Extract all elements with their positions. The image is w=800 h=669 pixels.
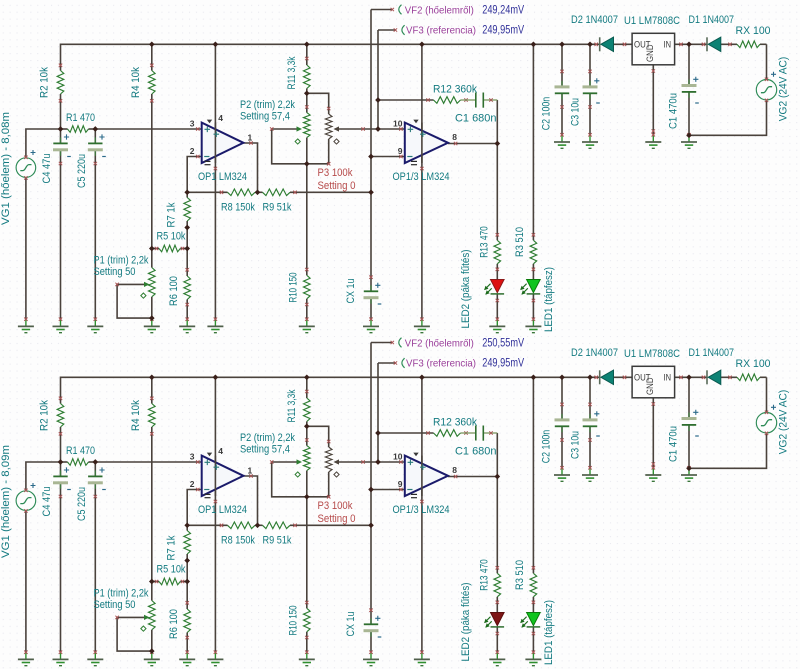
capacitor CX (bottom) [370, 618, 372, 624]
wire R11 to P3 top (top) [307, 93, 329, 114]
LED LED2 (top) [491, 280, 505, 293]
wire VG1 output to R1 node (top) [26, 129, 61, 157]
potentiometer P3 (bottom) [325, 447, 332, 472]
junction VF3-R12 (top) [375, 97, 381, 103]
resistor R9 (bottom) [263, 522, 291, 529]
junction out-C1-R13 (top) [494, 141, 500, 147]
svg-text:8: 8 [452, 465, 457, 475]
wire R1 leads (top) [61, 128, 68, 130]
junction IN-C1-D1 (top) [686, 41, 692, 47]
ground at x=60.5 (bottom) [60, 653, 62, 660]
wire R11 leads / P2 column (bottom) [306, 377, 308, 398]
resistor R8 (top) [228, 189, 256, 196]
op-amp OP1 (top) [202, 123, 244, 163]
capacitor C5 (bottom) [94, 470, 96, 476]
junction C1-VG2 return (bottom) [686, 465, 692, 471]
svg-text:R10 150: R10 150 [288, 273, 300, 303]
resistor R6 (bottom) [184, 609, 191, 633]
junction R7 bottom (bottom) [184, 558, 190, 564]
svg-text:C5 220u: C5 220u [76, 487, 88, 521]
wire R1 node to op-amp pin 3 (top) [95, 128, 201, 130]
wire U1 GND pin (top) [652, 65, 654, 135]
node VF2 line (top) [370, 10, 372, 292]
svg-text:LED2 (páka fűtés): LED2 (páka fűtés) [460, 583, 472, 662]
svg-text:249,24mV: 249,24mV [482, 4, 524, 16]
junction P1 bottom (bottom) [149, 648, 155, 654]
capacitor C1 470u (bottom) [688, 413, 690, 419]
resistor R3 (top) [530, 240, 537, 263]
wire OP1/3 output line (top) [448, 143, 497, 145]
svg-text:RX 100: RX 100 [736, 358, 771, 370]
ground power section x=653.3 (top) [652, 135, 654, 142]
LED LED1 (top) [527, 280, 541, 293]
svg-text:3: 3 [190, 452, 195, 462]
resistor R5 (bottom) [159, 578, 180, 585]
resistor R13 (bottom) [494, 573, 501, 597]
resistor R10 (bottom) [304, 608, 311, 632]
svg-text:C1 680n: C1 680n [455, 113, 497, 125]
wire P2 bottom to P3 bottom (top) [307, 163, 329, 165]
resistor R13 (top) [494, 240, 501, 263]
diode D2 (top) [599, 37, 601, 51]
svg-text:OP1/3 LM324: OP1/3 LM324 [393, 171, 450, 183]
resistor R11 (top) [304, 65, 311, 89]
ground power section x=562 (bottom) [561, 468, 563, 475]
junction R1-C5-pin3 (top) [92, 126, 98, 132]
junction bus-OP1/3 power (top) [419, 41, 425, 47]
wire VF3 probe stub (top) [378, 29, 395, 31]
resistor R2 (bottom) [57, 404, 64, 428]
node VF2 line (bottom) [370, 343, 372, 625]
wire U1 IN to D1 (bottom) [675, 376, 707, 378]
ground at x=306.8 (top) [306, 320, 308, 327]
op-amp OP1/3 (top) [405, 123, 448, 163]
junction R4-R5-P1 (top) [149, 246, 155, 252]
wire P3 wiper to op-amp pin 10 (bottom) [338, 461, 405, 463]
svg-text:Setting 57,4: Setting 57,4 [240, 443, 290, 455]
svg-text:VF2 (hőelemről): VF2 (hőelemről) [405, 337, 474, 349]
ground at x=497.3 (bottom) [496, 653, 498, 660]
potentiometer P3 (top) [325, 114, 332, 139]
wire P3 bottom lead (bottom) [328, 472, 330, 497]
junction bus-OP1 power (top) [213, 41, 219, 47]
junction P1 bottom (top) [149, 315, 155, 321]
svg-text:R12 360k: R12 360k [433, 84, 477, 96]
junction bus-R11 (top) [304, 41, 310, 47]
junction bus-R4 (bottom) [149, 374, 155, 380]
svg-text:R7 1k: R7 1k [166, 535, 178, 560]
wire R7 to R6 column (top) [186, 221, 188, 276]
wire R7 to R6 column (bottom) [186, 554, 188, 609]
wire U1 IN to D1 (top) [675, 43, 707, 45]
diode D1 (bottom) [706, 370, 708, 384]
ground power section x=562 (top) [561, 135, 563, 142]
voltage source VG2 (top) [756, 80, 776, 100]
svg-text:P1 (trim) 2,2k: P1 (trim) 2,2k [94, 588, 149, 600]
capacitor C1 470u (top) [688, 80, 690, 86]
resistor R10 (top) [304, 275, 311, 299]
svg-text:OP1 LM324: OP1 LM324 [198, 171, 247, 183]
svg-text:249,95mV: 249,95mV [482, 24, 524, 36]
wire C1 470u leads (bottom) [688, 377, 690, 418]
junction bus-R11 (bottom) [304, 374, 310, 380]
svg-text:8: 8 [452, 132, 457, 142]
svg-text:C3 10u: C3 10u [569, 431, 581, 459]
capacitor C2 (top) [561, 81, 563, 87]
junction bus-OP1/3 power (bottom) [419, 374, 425, 380]
svg-text:R5 10k: R5 10k [157, 564, 186, 576]
junction bus-C3 (top) [587, 41, 593, 47]
svg-text:R2 10k: R2 10k [39, 67, 51, 98]
junction bus-C2 (top) [559, 41, 565, 47]
junction VF2-pin9 (top) [368, 154, 374, 160]
svg-text:R8 150k: R8 150k [221, 202, 255, 214]
svg-text:1: 1 [248, 133, 253, 143]
wire C5 leads (bottom) [94, 462, 96, 476]
wire R10 column (bottom) [306, 497, 308, 609]
svg-text:C1 680n: C1 680n [455, 446, 497, 458]
ground power section x=590 (bottom) [589, 468, 591, 475]
wire D1 to RX to VG2 (bottom) [721, 376, 737, 378]
wire P2 bottom to P3 bottom (bottom) [307, 496, 329, 498]
resistor R7 (bottom) [184, 531, 191, 555]
svg-text:C4 47u: C4 47u [41, 487, 53, 517]
svg-text:10: 10 [393, 119, 403, 129]
junction R11-P2-P3 (top) [304, 90, 310, 96]
op-amp OP1 (bottom) [202, 456, 244, 496]
capacitor C5 (top) [94, 137, 96, 143]
svg-text:D2 1N4007: D2 1N4007 [571, 347, 618, 359]
junction bus-R4 (top) [149, 41, 155, 47]
ground power section x=689 (top) [688, 135, 690, 142]
svg-text:C4 47u: C4 47u [41, 154, 53, 184]
junction out-C1-R13 (bottom) [494, 474, 500, 480]
svg-text:VG2 (24V AC): VG2 (24V AC) [778, 390, 790, 455]
junction bus-C2 (bottom) [559, 374, 565, 380]
potentiometer P2 (bottom) [304, 446, 311, 471]
wire P3 bottom lead (top) [328, 139, 330, 164]
ground at x=215.4 (top) [214, 320, 216, 327]
junction VF3-pin10 (top) [375, 126, 381, 132]
junction R4-R5-P1 (bottom) [149, 579, 155, 585]
svg-text:R5 10k: R5 10k [157, 231, 186, 243]
potentiometer P2 (top) [304, 113, 311, 138]
junction R5-R6 (bottom) [184, 579, 190, 585]
wire op-amp pin 2 to R7/R8 node (bottom) [187, 490, 202, 531]
svg-text:3: 3 [190, 119, 195, 129]
svg-text:1: 1 [248, 466, 253, 476]
resistor R5 (top) [159, 245, 180, 252]
wire R2 bottom lead (top) [60, 94, 62, 129]
ground at x=60.5 (top) [60, 320, 62, 327]
resistor R4 (top) [149, 71, 156, 95]
wire R3 LED1 column (top) [532, 44, 534, 240]
capacitor C3 (top) [589, 81, 591, 87]
wire R13 LED2 column (bottom) [496, 477, 498, 574]
svg-text:P2 (trim) 2,2k: P2 (trim) 2,2k [240, 432, 295, 444]
wire R1 leads (bottom) [61, 461, 68, 463]
junction bus-C3 (bottom) [587, 374, 593, 380]
wire CX bottom to ground (bottom) [370, 631, 372, 653]
svg-text:9: 9 [398, 479, 403, 489]
junction R1-C5-pin3 (bottom) [92, 459, 98, 465]
svg-text:GND: GND [645, 44, 655, 62]
ground at x=533.4 (top) [532, 320, 534, 327]
svg-text:4: 4 [218, 113, 223, 123]
junction R1-R2-C4 (bottom) [58, 459, 64, 465]
wire R11 leads / P2 column (top) [306, 44, 308, 65]
svg-text:CX 1u: CX 1u [345, 612, 357, 637]
wire R5 leads (top) [152, 248, 159, 250]
resistor R6 (top) [184, 276, 191, 300]
wire R8 R9 feedback line (bottom) [187, 524, 227, 526]
LED LED2 (bottom) [491, 613, 505, 626]
svg-text:P2 (trim) 2,2k: P2 (trim) 2,2k [240, 99, 295, 111]
svg-text:D1 1N4007: D1 1N4007 [689, 14, 735, 26]
wire OP1/3 power rail (bottom) [421, 377, 423, 652]
wire C2 leads (top) [561, 44, 563, 87]
capacitor CX (top) [370, 285, 372, 291]
resistor RX (top) [737, 41, 760, 48]
svg-text:R2 10k: R2 10k [39, 400, 51, 431]
svg-text:R6 100: R6 100 [168, 276, 180, 306]
svg-text:VG2 (24V AC): VG2 (24V AC) [778, 57, 790, 122]
svg-text:C2 100n: C2 100n [541, 97, 553, 131]
voltage source VG1 (bottom) [16, 491, 36, 511]
resistor R7 (top) [184, 198, 191, 222]
wire VF2 probe stub (top) [371, 9, 392, 11]
svg-text:Setting 50: Setting 50 [94, 266, 136, 278]
junction bus-R3 (bottom) [531, 374, 537, 380]
diode D1 (top) [706, 37, 708, 51]
svg-text:P3 100k: P3 100k [318, 500, 353, 512]
wire OP1 power rail pin4/pin11 (bottom) [214, 377, 216, 652]
junction R7 bottom (top) [184, 225, 190, 231]
wire C3 leads (bottom) [589, 377, 591, 420]
ground power section x=653.3 (bottom) [652, 468, 654, 475]
svg-text:R6 100: R6 100 [168, 609, 180, 639]
wire VG1 to ground (top) [25, 178, 27, 319]
capacitor C1 680n (top) [461, 99, 476, 101]
svg-text:GND: GND [645, 377, 655, 395]
svg-text:C3 10u: C3 10u [569, 98, 581, 126]
wire R6 bottom to ground (bottom) [186, 633, 188, 653]
junction OP1 out-R8-R9 (bottom) [255, 522, 261, 528]
svg-text:P3 100k: P3 100k [318, 167, 353, 179]
junction pin2-R7-R8 (bottom) [184, 522, 190, 528]
svg-text:U1 LM7808C: U1 LM7808C [624, 348, 680, 360]
wire R6 bottom to ground (top) [186, 300, 188, 320]
wire R4 leads / column to R5 (bottom) [151, 377, 153, 403]
wire VG1 to ground (bottom) [25, 511, 27, 652]
svg-text:IN: IN [664, 373, 672, 384]
svg-text:249,95mV: 249,95mV [482, 357, 524, 369]
wire R2 top lead and +rail bus (bottom) [61, 377, 600, 403]
svg-text:LED2 (páka fűtés): LED2 (páka fűtés) [460, 250, 472, 329]
wire C1 470u leads (top) [688, 44, 690, 85]
wire D2 to U1 OUT (top) [614, 43, 633, 45]
svg-text:10: 10 [393, 452, 403, 462]
svg-text:R3 510: R3 510 [514, 227, 526, 257]
resistor RX (bottom) [737, 374, 760, 381]
junction R5-R6 (top) [184, 246, 190, 252]
svg-text:Setting 50: Setting 50 [94, 599, 136, 611]
svg-text:C1 470u: C1 470u [668, 93, 680, 129]
svg-text:R9 51k: R9 51k [263, 535, 292, 547]
wire OP1 power rail pin4/pin11 (top) [214, 44, 216, 319]
ground power section x=590 (top) [589, 135, 591, 142]
svg-text:R7 1k: R7 1k [166, 202, 178, 227]
wire D1 to RX to VG2 (top) [721, 43, 737, 45]
svg-text:R4 10k: R4 10k [130, 400, 142, 431]
svg-text:R9 51k: R9 51k [263, 202, 292, 214]
ground at x=151.8 (top) [151, 320, 153, 327]
svg-text:VG1 (hőelem) - 8,09m: VG1 (hőelem) - 8,09m [0, 445, 12, 558]
wire VG1 output to R1 node (bottom) [26, 462, 61, 490]
junction OP1 out-R8-R9 (top) [255, 189, 261, 195]
capacitor C4 (bottom) [60, 470, 62, 476]
svg-text:R1 470: R1 470 [66, 112, 95, 124]
junction R9-VF2 line (bottom) [368, 522, 374, 528]
wire R12 C1 feedback line (bottom) [378, 432, 434, 434]
node VF3 line (bottom) [377, 363, 379, 462]
wire C2 leads (bottom) [561, 377, 563, 420]
svg-text:RX 100: RX 100 [736, 25, 771, 37]
voltage source VG2 (bottom) [756, 413, 776, 433]
junction VF3-pin10 (bottom) [375, 459, 381, 465]
wire OP1 output to feedback node (top) [243, 143, 257, 192]
svg-text:C5 220u: C5 220u [76, 154, 88, 188]
wire R12 C1 feedback line (top) [378, 99, 434, 101]
voltage pin VF2 (bottom) [399, 338, 402, 348]
wire OP1/3 output line (bottom) [448, 476, 497, 478]
op-amp OP1/3 (bottom) [405, 456, 448, 496]
junction bus-R3 (top) [531, 41, 537, 47]
wire P1 wiper loop (top) [117, 284, 152, 318]
wire C3 leads (top) [589, 44, 591, 87]
ground at x=421.9 (bottom) [421, 653, 423, 660]
svg-text:R11 3,3k: R11 3,3k [286, 389, 298, 422]
wire VG2 return (bottom) [689, 433, 767, 468]
svg-text:R1 470: R1 470 [66, 445, 95, 457]
wire VF3 probe stub (bottom) [378, 362, 395, 364]
voltage pin VF3 (top) [402, 25, 405, 35]
wire P1 bottom to ground (bottom) [151, 630, 153, 652]
junction R11-P2-P3 (bottom) [304, 423, 310, 429]
ground at x=533.4 (bottom) [532, 653, 534, 660]
ground at x=187.2 (bottom) [186, 653, 188, 660]
LED LED1 (bottom) [527, 613, 541, 626]
wire R5 leads (bottom) [152, 581, 159, 583]
wire R3 LED1 column (bottom) [532, 377, 534, 573]
svg-text:D1 1N4007: D1 1N4007 [689, 347, 735, 359]
wire R2 top lead and +rail bus (top) [61, 44, 600, 70]
junction VF2-pin9 (bottom) [368, 487, 374, 493]
wire P2 wiper loop (top) [272, 129, 307, 164]
capacitor C3 (bottom) [589, 414, 591, 420]
wire OP1/3 power rail (top) [421, 44, 423, 319]
junction R9-VF2 line (top) [368, 189, 374, 195]
svg-text:9: 9 [398, 146, 403, 156]
resistor R3 (bottom) [530, 573, 537, 597]
resistor R2 (top) [57, 71, 64, 95]
wire R4 leads / column to R5 (top) [151, 44, 153, 70]
resistor R12 (bottom) [434, 430, 461, 437]
wire op-amp pin 2 to R7/R8 node (top) [187, 157, 202, 198]
svg-text:R13 470: R13 470 [479, 226, 491, 258]
voltage regulator U1 LM7808C (bottom) [632, 366, 675, 398]
junction pin2-R7-R8 (top) [184, 189, 190, 195]
resistor R8 (bottom) [228, 522, 256, 529]
wire VG2 return (top) [689, 100, 767, 135]
svg-text:250,55mV: 250,55mV [482, 337, 524, 349]
wire R4 column to P1 (top) [151, 249, 153, 268]
ground at x=25.9 (top) [25, 320, 27, 327]
resistor R1 (bottom) [68, 459, 89, 466]
ground at x=95.3 (top) [94, 320, 96, 327]
voltage pin VF3 (bottom) [402, 358, 405, 368]
ground at x=371 (top) [370, 320, 372, 327]
potentiometer P1 (top) [149, 268, 156, 297]
ground at x=187.2 (top) [186, 320, 188, 327]
svg-text:VG1 (hőelem) - 8,08m: VG1 (hőelem) - 8,08m [0, 112, 12, 225]
junction P2-P3-R10 (bottom) [304, 494, 310, 500]
voltage source VG1 (top) [16, 158, 36, 178]
svg-text:C2 100n: C2 100n [541, 430, 553, 464]
junction P2-P3-R10 (top) [304, 161, 310, 167]
node VF3 line (top) [377, 30, 379, 129]
resistor R1 (top) [68, 126, 89, 133]
svg-text:VF3 (referencia): VF3 (referencia) [406, 357, 476, 369]
wire P1 wiper loop (bottom) [117, 617, 152, 651]
svg-text:Setting 0: Setting 0 [318, 180, 356, 192]
svg-text:D2 1N4007: D2 1N4007 [571, 14, 618, 26]
svg-text:OP1/3 LM324: OP1/3 LM324 [393, 504, 450, 516]
ground at x=371 (bottom) [370, 653, 372, 660]
svg-text:R12 360k: R12 360k [433, 417, 477, 429]
wire P3 wiper to op-amp pin 10 (top) [338, 128, 405, 130]
resistor R4 (bottom) [149, 404, 156, 428]
resistor R12 (top) [434, 97, 461, 104]
ground at x=306.8 (bottom) [306, 653, 308, 660]
junction bus-OP1 power (bottom) [213, 374, 219, 380]
ground at x=215.4 (bottom) [214, 653, 216, 660]
wire CX bottom to ground (top) [370, 298, 372, 320]
resistor R11 (bottom) [304, 398, 311, 422]
ground at x=151.8 (bottom) [151, 653, 153, 660]
wire U1 GND pin (bottom) [652, 398, 654, 468]
wire op-amp pin 9 (bottom) [371, 489, 405, 491]
capacitor C4 (top) [60, 137, 62, 143]
diode D2 (bottom) [599, 370, 601, 384]
svg-text:LED1 (tápfesz): LED1 (tápfesz) [543, 267, 555, 332]
junction R1-R2-C4 (top) [58, 126, 64, 132]
svg-text:OP1 LM324: OP1 LM324 [198, 504, 247, 516]
svg-text:VF2 (hőelemről): VF2 (hőelemről) [405, 4, 474, 16]
wire C5 leads (top) [94, 129, 96, 143]
svg-text:U1 LM7808C: U1 LM7808C [624, 15, 680, 27]
svg-text:C1 470u: C1 470u [668, 426, 680, 462]
wire VF2 probe stub (bottom) [371, 342, 392, 344]
junction C1-VG2 return (top) [686, 132, 692, 138]
resistor R9 (top) [263, 189, 291, 196]
ground at x=497.3 (top) [496, 320, 498, 327]
svg-text:2: 2 [190, 146, 195, 156]
junction IN-C1-D1 (bottom) [686, 374, 692, 380]
svg-text:Setting 0: Setting 0 [318, 513, 356, 525]
svg-text:R3 510: R3 510 [514, 560, 526, 590]
svg-text:P1 (trim) 2,2k: P1 (trim) 2,2k [94, 255, 149, 267]
